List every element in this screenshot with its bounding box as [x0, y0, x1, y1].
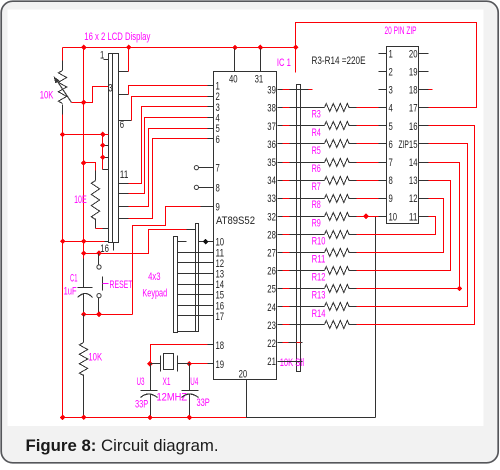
svg-text:U3: U3 [137, 376, 145, 388]
wire row to ZIP pin 16 wrap-around [357, 126, 475, 325]
svg-text:6: 6 [389, 139, 393, 151]
svg-text:33P: 33P [135, 399, 148, 411]
svg-text:R5: R5 [312, 145, 321, 157]
svg-text:C1: C1 [70, 273, 78, 285]
resistor R10 [278, 234, 283, 236]
svg-text:R12: R12 [312, 272, 326, 284]
wire left bus to LCD [63, 134, 109, 136]
resistor R13 [278, 288, 283, 290]
wire LCD top stub to rail [119, 71, 129, 73]
svg-text:R10: R10 [312, 235, 326, 247]
MCU pin 7 (open) [194, 166, 198, 170]
svg-text:R11: R11 [312, 254, 326, 266]
svg-text:17: 17 [216, 311, 225, 323]
wire MCU pin 22 stub [278, 342, 283, 344]
svg-text:R13: R13 [312, 290, 326, 302]
wire R6 to ZIP pin 7 [357, 162, 379, 164]
wire R9 to ZIP pin 10 [357, 216, 379, 218]
wire R8 to ZIP pin 9 [357, 198, 379, 200]
resistor R6 [278, 162, 283, 164]
junction on rail [81, 45, 87, 51]
wire bus to 10E [84, 163, 96, 171]
svg-text:10E: 10E [74, 194, 87, 206]
svg-text:R6: R6 [312, 163, 321, 175]
svg-text:R3-R14 =220E: R3-R14 =220E [312, 55, 366, 67]
svg-text:16 x 2 LCD Display: 16 x 2 LCD Display [84, 31, 150, 43]
svg-text:40: 40 [229, 74, 238, 86]
svg-text:20 PIN ZIP: 20 PIN ZIP [385, 25, 417, 37]
MCU pin 8 (open) [194, 185, 198, 189]
wire R5 to ZIP pin 6 [357, 143, 379, 145]
wire crystal to MCU pin 18 [151, 345, 208, 364]
potentiometer wiper arrow [56, 79, 72, 103]
svg-text:20: 20 [409, 48, 418, 60]
svg-text:15: 15 [409, 139, 418, 151]
svg-text:8: 8 [389, 175, 393, 187]
svg-text:17: 17 [409, 103, 418, 115]
resistor 10E [95, 171, 97, 181]
resistor R12 [278, 270, 283, 272]
svg-text:25: 25 [267, 284, 276, 296]
capacitor C1 1uF [83, 259, 85, 288]
wire bus link y241 [63, 241, 105, 243]
svg-text:12: 12 [409, 193, 418, 205]
svg-text:IC 1: IC 1 [277, 57, 291, 69]
wire LCD to MCU pin 6 [119, 218, 129, 220]
potentiometer 10K [62, 61, 64, 71]
svg-text:Keypad: Keypad [142, 288, 167, 300]
ZIP pin 3 stub [379, 89, 387, 91]
resistor R15 (unlabeled) [278, 324, 283, 326]
MCU top pin 40 [234, 49, 236, 72]
wire LCD to MCU pin 1 [119, 94, 129, 96]
wire R3 to ZIP pin 4 [357, 107, 379, 109]
resistor R14 [278, 306, 283, 308]
svg-text:33P: 33P [197, 397, 210, 409]
svg-text:19: 19 [409, 67, 418, 79]
resistor R5 [278, 143, 283, 145]
svg-text:32: 32 [267, 211, 276, 223]
junction ZIP pin 10 row [363, 214, 369, 220]
svg-text:U4: U4 [190, 376, 198, 388]
svg-text:Figure 8: Circuit diagram.: Figure 8: Circuit diagram. [26, 436, 219, 455]
resistor network 10K SIL [297, 85, 301, 372]
IC AT89S52 U1 body [214, 72, 277, 380]
svg-text:23: 23 [267, 320, 276, 332]
junction wrap R13 [457, 286, 463, 292]
wire LCD to MCU pin 3 [119, 183, 129, 185]
svg-text:39: 39 [267, 85, 276, 97]
svg-text:3: 3 [389, 85, 393, 97]
resistor 10K (bottom) [83, 315, 85, 343]
svg-text:R4: R4 [312, 127, 321, 139]
svg-text:4: 4 [389, 103, 393, 115]
16x2 LCD connector strip [109, 54, 119, 243]
svg-text:7: 7 [216, 163, 220, 175]
svg-text:R14: R14 [312, 308, 326, 320]
wire reset top net [84, 230, 187, 254]
wire VCC drop to resistor network [295, 48, 297, 73]
svg-text:18: 18 [216, 340, 225, 352]
svg-text:2: 2 [389, 67, 393, 79]
MCU top pin 31 [260, 49, 262, 72]
connector 20 PIN ZIP body [387, 47, 419, 224]
wire 10E to LCD [96, 228, 103, 230]
wire row to ZIP pin 13 wrap-around [357, 181, 451, 271]
svg-text:34: 34 [267, 175, 276, 187]
svg-text:10K: 10K [40, 89, 54, 101]
svg-text:X1: X1 [163, 376, 171, 388]
wire pot wiper to LCD pin3 [72, 87, 109, 103]
svg-text:31: 31 [255, 74, 264, 86]
svg-text:19: 19 [216, 359, 225, 371]
ZIP pin 17 stub [419, 107, 429, 109]
wire LCD to MCU pin 2 [119, 120, 132, 122]
svg-text:10K SIl: 10K SIl [280, 357, 304, 369]
ZIP pin 1 stub [379, 53, 387, 55]
svg-text:AT89S52: AT89S52 [216, 215, 255, 227]
resistor R7 [278, 180, 283, 182]
LCD pin 1 label and stub [104, 59, 109, 61]
svg-text:5: 5 [389, 121, 393, 133]
wire second vertical bus x84 [83, 48, 85, 259]
4x3 keypad left strip [174, 237, 178, 333]
wire ground bus bottom [63, 417, 247, 419]
ZIP pin 18 stub [419, 89, 429, 91]
capacitor U3 33P [150, 364, 152, 391]
svg-text:20: 20 [239, 369, 248, 381]
wire LCD to MCU pin 5 [119, 206, 129, 208]
wire R4 to ZIP pin 5 [357, 125, 379, 127]
svg-text:R7: R7 [312, 181, 321, 193]
svg-text:6: 6 [216, 134, 220, 146]
wire MCU pin 20 to ground [246, 380, 248, 418]
wire crystal to MCU pin 19 [190, 363, 208, 365]
resistor R9 [278, 216, 283, 218]
svg-text:12MHZ: 12MHZ [157, 391, 188, 403]
svg-text:14: 14 [409, 157, 418, 169]
resistor R11 [278, 252, 283, 254]
svg-text:38: 38 [267, 103, 276, 115]
svg-text:26: 26 [267, 266, 276, 278]
wire row to ZIP pin 12 wrap-around [357, 199, 444, 253]
ZIP pin 2 stub [379, 71, 387, 73]
svg-text:R8: R8 [312, 199, 321, 211]
svg-text:10K: 10K [88, 351, 102, 363]
svg-text:7: 7 [389, 157, 393, 169]
wire MCU pin9 RST [133, 207, 201, 315]
svg-text:R9: R9 [312, 217, 321, 229]
svg-text:22: 22 [267, 338, 276, 350]
svg-text:28: 28 [267, 229, 276, 241]
wire LCD to MCU pin 4 [119, 193, 129, 195]
wire VCC rail top [63, 47, 296, 49]
svg-text:10: 10 [389, 211, 398, 223]
resistor R4 [278, 125, 283, 127]
ZIP pin 19 stub [419, 71, 429, 73]
wire ground return to ZIP pin 10 [247, 417, 376, 419]
wire LCD left pin cluster [102, 135, 104, 170]
svg-text:R3: R3 [312, 109, 321, 121]
wire left vertical bus [62, 48, 64, 61]
wire MCU pin 39 stub [278, 89, 283, 91]
svg-text:RESET: RESET [110, 279, 133, 291]
svg-text:9: 9 [216, 201, 220, 213]
wire R7 to ZIP pin 8 [357, 180, 379, 182]
svg-text:13: 13 [409, 175, 418, 187]
resistor R8 [278, 198, 283, 200]
svg-text:8: 8 [216, 182, 220, 194]
svg-text:35: 35 [267, 157, 276, 169]
svg-text:3: 3 [108, 83, 112, 95]
wire VCC rail upper loop to ZIP pin 17 [296, 23, 477, 108]
ZIP pin 20 stub [419, 53, 429, 55]
crystal X1 12MHZ [151, 363, 161, 365]
svg-text:36: 36 [267, 139, 276, 151]
wire MCU pin 21 stub [278, 361, 303, 363]
svg-text:27: 27 [267, 248, 276, 260]
wire row to ZIP pin 14 wrap-around [357, 163, 460, 289]
svg-text:1uF: 1uF [64, 285, 77, 297]
svg-text:21: 21 [267, 356, 276, 368]
wire row to ZIP pin 11 wrap-around [357, 217, 436, 235]
svg-text:33: 33 [267, 193, 276, 205]
svg-text:9: 9 [389, 193, 393, 205]
wire row to ZIP pin 15 wrap-around [357, 144, 468, 307]
svg-text:1: 1 [389, 48, 393, 60]
svg-text:11: 11 [409, 211, 418, 223]
svg-text:4x3: 4x3 [148, 271, 160, 283]
resistor R3 [278, 107, 283, 109]
push button RESET [98, 254, 100, 265]
wire LCD pin16 stub [113, 243, 115, 251]
svg-text:ZIP: ZIP [399, 139, 409, 151]
capacitor U4 33P [189, 364, 191, 391]
svg-text:37: 37 [267, 121, 276, 133]
svg-text:1: 1 [100, 50, 104, 62]
keypad bottom link [178, 331, 199, 333]
svg-text:24: 24 [267, 302, 276, 314]
svg-text:11: 11 [120, 169, 129, 181]
wire reset bottom net [84, 314, 133, 316]
keypad row wires to MCU pins 10-17 [178, 241, 187, 243]
svg-text:16: 16 [409, 121, 418, 133]
4x3 keypad right strip [196, 224, 199, 332]
svg-text:18: 18 [409, 85, 418, 97]
